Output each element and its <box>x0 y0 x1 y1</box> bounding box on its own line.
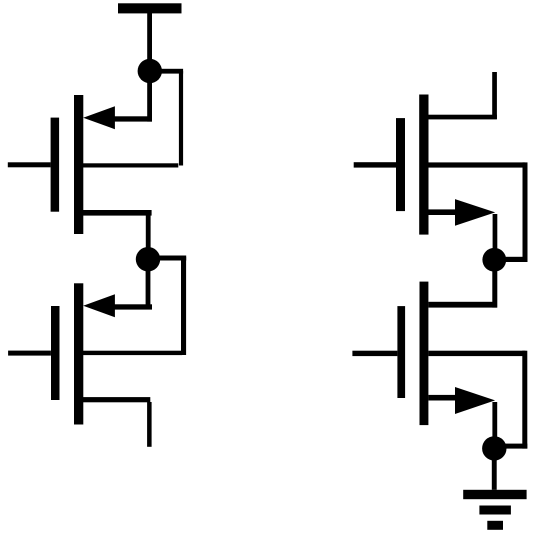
transistor M4 (bottom-right MOSFET) <box>352 282 525 426</box>
ground symbol <box>463 490 526 530</box>
transistor M2 (bottom-left MOSFET) <box>8 283 182 424</box>
power rail VDD (top supply bar) <box>118 3 182 13</box>
wire: node C down to M4 drain <box>492 271 497 308</box>
wire: top-right open stub down to M3 drain <box>492 72 497 119</box>
wire: M1 source down to node B <box>146 215 151 259</box>
wire: down right side to M1 bulk <box>179 71 183 166</box>
wire: M3 bulk down right side to node C <box>523 162 528 261</box>
wire: M4 bulk down right side to node D <box>522 351 527 449</box>
wire: node B down to M2 drain <box>146 271 151 309</box>
wire: M2 source stub (open end) <box>147 402 152 447</box>
wire: node C to the right <box>494 257 527 262</box>
wire: down right side to M2 bulk <box>181 257 186 355</box>
wire: M3 source arrow tip down to node C <box>493 214 498 260</box>
node D (junction dot) <box>482 436 506 460</box>
transistor M1 (top-left MOSFET) <box>8 95 179 234</box>
wire: node A to the right <box>150 69 183 74</box>
node B (junction dot) <box>136 247 160 271</box>
wire: M4 source arrow tip down to node D <box>492 402 497 448</box>
node A (junction dot) <box>138 59 162 83</box>
wire: VDD rail down to node A <box>147 13 152 71</box>
node C (junction dot) <box>482 248 506 272</box>
wire: node A down to M1 drain <box>147 71 152 122</box>
transistor M3 (top-right MOSFET) <box>354 95 525 235</box>
wire: node B to the right <box>148 256 186 261</box>
wire: node D down to ground <box>492 458 497 490</box>
wire: node D to the right <box>494 444 527 449</box>
